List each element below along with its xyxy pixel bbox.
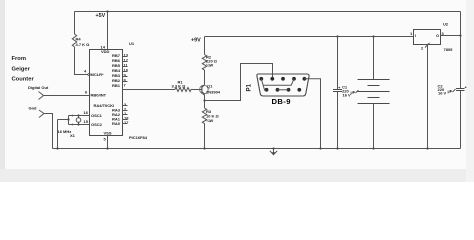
svg-text:Geiger: Geiger [12, 67, 31, 73]
svg-text:Gnd: Gnd [29, 106, 38, 111]
svg-text:RB1: RB1 [112, 83, 121, 88]
svg-text:VSS: VSS [104, 131, 112, 136]
svg-text:U2: U2 [443, 22, 449, 27]
svg-text:U1: U1 [129, 41, 135, 46]
svg-text:R4: R4 [76, 37, 82, 42]
svg-text:µF: µF [448, 89, 453, 94]
svg-text:P1: P1 [246, 83, 253, 91]
svg-text:¼W: ¼W [206, 118, 213, 123]
svg-text:RB0/INT: RB0/INT [91, 93, 107, 98]
svg-text:Digital Out: Digital Out [28, 85, 49, 90]
svg-text:OSC1: OSC1 [91, 113, 103, 118]
svg-text:X1: X1 [70, 133, 76, 138]
svg-text:Q1: Q1 [207, 84, 213, 89]
svg-text:MCLR*: MCLR* [91, 72, 105, 77]
svg-text:16 V: 16 V [438, 91, 447, 96]
svg-text:4.7 K Ω: 4.7 K Ω [76, 42, 91, 47]
svg-text:16: 16 [84, 110, 89, 115]
svg-text:PIC16F84: PIC16F84 [129, 135, 148, 140]
svg-text:7805: 7805 [444, 47, 454, 52]
svg-text:OSC2: OSC2 [91, 122, 103, 127]
svg-text:¼W: ¼W [206, 63, 213, 68]
svg-text:VDD: VDD [101, 49, 110, 54]
svg-text:15: 15 [84, 119, 89, 124]
svg-text:µF: µF [351, 90, 356, 95]
svg-text:+9V: +9V [191, 38, 201, 44]
svg-text:2N3904: 2N3904 [206, 90, 221, 95]
svg-text:3.3 K Ω: 3.3 K Ω [172, 83, 187, 88]
svg-text:+5V: +5V [96, 13, 106, 19]
svg-text:17: 17 [124, 120, 129, 125]
svg-text:Counter: Counter [12, 77, 35, 83]
svg-text:From: From [12, 56, 27, 62]
svg-text:I: I [415, 33, 416, 38]
svg-text:RA0: RA0 [112, 121, 121, 126]
svg-text:DB-9: DB-9 [272, 97, 291, 106]
svg-text:O: O [436, 33, 439, 38]
